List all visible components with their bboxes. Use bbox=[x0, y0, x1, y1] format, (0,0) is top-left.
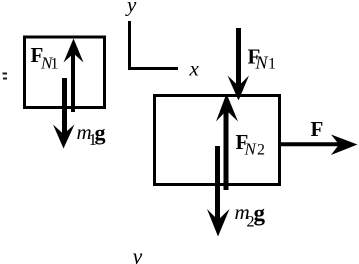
svg-text:y: y bbox=[125, 0, 137, 17]
label m2g bbox=[235, 200, 266, 231]
label F_N2 bbox=[236, 130, 266, 159]
svg-text:g: g bbox=[254, 201, 266, 226]
weight arrow m1g down bbox=[53, 78, 75, 149]
label x (axis) bbox=[189, 57, 200, 81]
force arrow F_N1 down on block m2 bbox=[228, 28, 250, 101]
label F (applied force) bbox=[311, 117, 324, 141]
svg-text:N: N bbox=[255, 53, 269, 73]
force arrow F_N2 up bbox=[216, 94, 238, 191]
label y (bottom, cut off) bbox=[131, 244, 143, 264]
svg-text:1: 1 bbox=[51, 56, 59, 73]
block m2 bbox=[155, 96, 280, 185]
svg-text:y: y bbox=[131, 244, 143, 264]
label F_N1 (block m2) bbox=[248, 45, 277, 73]
svg-text:N: N bbox=[244, 140, 258, 159]
force arrow F_N1 up on block m1 bbox=[64, 39, 84, 113]
x axis line bbox=[128, 67, 178, 70]
label m1g bbox=[77, 120, 106, 149]
svg-text:g: g bbox=[95, 120, 106, 145]
stray scan mark upper bbox=[3, 73, 8, 75]
label y (axis) bbox=[125, 0, 137, 17]
stray scan mark lower bbox=[3, 78, 7, 80]
applied force arrow F right bbox=[278, 135, 358, 156]
y axis line bbox=[128, 21, 131, 70]
svg-text:F: F bbox=[311, 117, 324, 141]
weight arrow m2g down bbox=[207, 146, 230, 237]
svg-text:x: x bbox=[189, 57, 200, 81]
svg-text:1: 1 bbox=[268, 56, 276, 73]
label F_N1 (block m1) bbox=[31, 43, 59, 73]
svg-text:2: 2 bbox=[257, 142, 265, 159]
block m1 bbox=[25, 37, 105, 108]
